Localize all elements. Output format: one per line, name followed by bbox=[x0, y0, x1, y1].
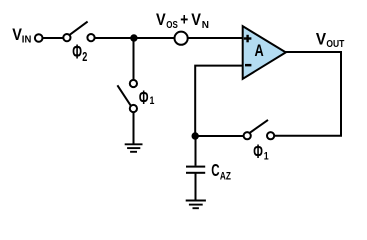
wire node B to switch PHI1b bbox=[195, 135, 245, 137]
label PHI2 bbox=[72, 42, 87, 65]
wire output VOUT to PHI1b bbox=[273, 52, 341, 136]
svg-text:2: 2 bbox=[82, 51, 87, 65]
wire VIN terminal to PHI2 bbox=[42, 37, 64, 39]
svg-text:Φ: Φ bbox=[72, 42, 82, 64]
label VOS+VN bbox=[156, 11, 209, 31]
svg-text:OS: OS bbox=[166, 19, 178, 30]
ground G2 bbox=[186, 201, 206, 209]
node B junction bbox=[192, 132, 199, 139]
svg-text:1: 1 bbox=[150, 95, 155, 107]
wire capacitor CAZ to ground bbox=[195, 174, 197, 201]
ground G1 bbox=[125, 144, 143, 152]
switch PHI1b bbox=[244, 120, 275, 139]
svg-text:V: V bbox=[156, 11, 166, 29]
wire PHI1a to ground bbox=[133, 111, 135, 145]
wire node A down to switch PHI1a bbox=[133, 38, 135, 81]
svg-text:+: + bbox=[180, 11, 188, 29]
svg-text:AZ: AZ bbox=[220, 170, 231, 182]
switch PHI2 bbox=[63, 22, 94, 42]
op-amp U1 bbox=[243, 26, 286, 79]
svg-text:N: N bbox=[202, 20, 209, 31]
svg-text:C: C bbox=[211, 162, 220, 181]
wire node B to capacitor CAZ bbox=[195, 136, 197, 166]
source VOS+VN bbox=[175, 32, 188, 45]
op-amp minus input sign bbox=[245, 64, 251, 67]
svg-text:1: 1 bbox=[264, 151, 269, 163]
node A junction bbox=[130, 34, 137, 41]
svg-text:OUT: OUT bbox=[326, 38, 344, 49]
svg-text:Φ: Φ bbox=[253, 141, 263, 163]
wire source to op-amp +in bbox=[186, 37, 242, 39]
capacitor CAZ bbox=[186, 166, 205, 174]
label CAZ bbox=[211, 162, 231, 183]
label VIN bbox=[12, 26, 31, 46]
svg-text:Φ: Φ bbox=[139, 87, 149, 109]
label VOUT bbox=[316, 30, 345, 49]
node VIN terminal bbox=[35, 34, 43, 42]
svg-text:V: V bbox=[191, 11, 201, 29]
switch PHI1a bbox=[117, 80, 137, 112]
svg-text:V: V bbox=[316, 30, 326, 49]
wire op-amp -in feedback to node B bbox=[195, 66, 242, 137]
label PHI1a bbox=[139, 87, 155, 109]
label PHI1b bbox=[253, 141, 269, 163]
svg-text:A: A bbox=[255, 41, 264, 60]
wire PHI2 to source, through node A bbox=[93, 37, 176, 39]
svg-text:IN: IN bbox=[22, 34, 31, 45]
op-amp plus input sign bbox=[244, 35, 252, 43]
